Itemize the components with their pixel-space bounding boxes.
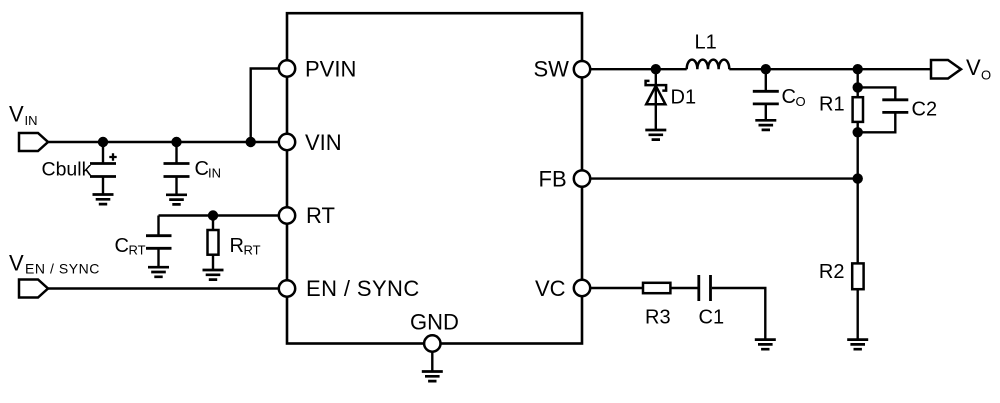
- svg-text:IN: IN: [208, 166, 221, 181]
- wire RT: [159, 214, 279, 216]
- svg-text:V: V: [966, 55, 981, 80]
- capacitor Cbulk: [42, 142, 117, 195]
- node VIN-Cbulk: [98, 137, 108, 147]
- node SW-R1: [853, 64, 863, 74]
- node SW-D1: [651, 64, 661, 74]
- capacitor C2: [858, 87, 937, 132]
- input port EN/SYNC: [19, 280, 48, 298]
- pin SW: [534, 56, 591, 81]
- wire C1 to ground: [712, 288, 765, 340]
- label V_IN: [9, 102, 38, 129]
- ground GND pin: [422, 352, 443, 381]
- svg-text:R3: R3: [645, 306, 671, 328]
- wire VIN input: [48, 141, 278, 143]
- svg-text:R2: R2: [819, 261, 845, 283]
- node R1 top: [853, 82, 863, 92]
- svg-text:EN / SYNC: EN / SYNC: [306, 276, 420, 301]
- ground C1: [755, 340, 776, 350]
- resistor R3: [643, 283, 671, 329]
- ground R2: [847, 340, 868, 350]
- node VIN-PVIN riser: [246, 137, 256, 147]
- ground CIN: [166, 195, 187, 205]
- svg-text:GND: GND: [410, 309, 459, 334]
- pin VC: [535, 276, 590, 301]
- inductor L1: [687, 32, 730, 70]
- svg-text:D1: D1: [671, 86, 697, 108]
- svg-text:C: C: [115, 235, 129, 257]
- node VIN-CIN: [171, 137, 181, 147]
- svg-text:R1: R1: [819, 93, 845, 115]
- capacitor CO: [753, 69, 806, 120]
- svg-text:FB: FB: [539, 166, 567, 191]
- pin GND: [410, 309, 459, 351]
- ground CO: [755, 120, 776, 130]
- svg-text:V: V: [9, 102, 24, 127]
- svg-text:SW: SW: [534, 56, 570, 81]
- wire PVIN riser: [251, 69, 279, 143]
- wire L1 to VO: [729, 68, 931, 70]
- output port VO: [931, 60, 961, 79]
- pin VIN: [279, 130, 342, 155]
- svg-text:O: O: [796, 94, 806, 109]
- label V_EN/SYNC: [9, 251, 100, 277]
- pin EN / SYNC: [279, 276, 420, 301]
- svg-text:RT: RT: [129, 243, 146, 258]
- svg-text:C1: C1: [699, 306, 725, 328]
- wire R3 to C1: [670, 287, 697, 289]
- node R1 bottom: [853, 127, 863, 137]
- svg-text:VC: VC: [535, 276, 566, 301]
- svg-text:C: C: [195, 158, 209, 180]
- label V_O: [966, 55, 991, 82]
- wire R1 branch: [857, 69, 859, 263]
- ground RRT: [203, 270, 224, 280]
- resistor R1: [819, 93, 863, 122]
- svg-text:RT: RT: [306, 203, 335, 228]
- wire VC: [591, 287, 643, 289]
- input port VIN: [19, 133, 48, 151]
- svg-text:EN / SYNC: EN / SYNC: [25, 261, 100, 277]
- pin RT: [279, 203, 335, 228]
- ground Cbulk: [93, 195, 114, 205]
- svg-text:V: V: [9, 251, 24, 276]
- svg-text:C: C: [782, 86, 796, 108]
- IC body U1: [287, 13, 582, 343]
- svg-text:L1: L1: [695, 32, 717, 54]
- pin FB: [539, 166, 591, 191]
- svg-text:IN: IN: [25, 113, 38, 128]
- capacitor CIN: [164, 142, 222, 195]
- svg-text:O: O: [981, 67, 991, 82]
- svg-text:Cbulk: Cbulk: [42, 159, 92, 181]
- ground CRT: [148, 267, 169, 277]
- node RT-RRT: [208, 210, 218, 220]
- wire SW output: [591, 68, 687, 70]
- svg-text:RT: RT: [244, 243, 261, 258]
- diode D1: [646, 69, 696, 130]
- svg-text:VIN: VIN: [305, 130, 342, 155]
- svg-text:R: R: [230, 235, 244, 257]
- wire FB: [591, 177, 858, 179]
- svg-text:C2: C2: [912, 99, 938, 121]
- pin PVIN: [279, 56, 357, 81]
- wire EN/SYNC input: [48, 287, 278, 289]
- node SW-CO: [761, 64, 771, 74]
- ground D1: [645, 130, 666, 140]
- resistor RRT: [208, 216, 261, 271]
- resistor R2: [819, 261, 864, 340]
- svg-text:PVIN: PVIN: [305, 56, 356, 81]
- capacitor C1: [699, 275, 725, 328]
- capacitor CRT: [115, 216, 172, 268]
- node FB-R2: [853, 173, 863, 183]
